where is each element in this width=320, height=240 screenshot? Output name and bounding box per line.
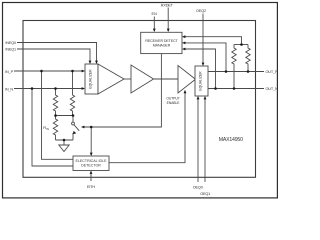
- switch blade: [74, 125, 79, 131]
- wire IN_P: [14, 70, 84, 72]
- arrowhead INEQ0: [95, 61, 98, 64]
- amplifier A3 output driver: [178, 66, 196, 94]
- junction IN_P branch 2: [71, 70, 74, 73]
- arrowhead EN into rdm: [153, 29, 156, 32]
- svg-text:MAX14950: MAX14950: [219, 137, 243, 143]
- arrowhead INEQ1: [89, 61, 92, 64]
- switch wire top: [72, 116, 74, 123]
- resistor RIN: [53, 116, 57, 141]
- equalizer block output: [195, 66, 208, 96]
- amplifier A2: [131, 65, 154, 93]
- arrowhead IN_N into equalizer: [82, 87, 85, 90]
- arrowhead enable into driver: [184, 90, 187, 93]
- junction OUT_N resistor: [233, 87, 236, 90]
- wire branch to idle detector top: [90, 127, 92, 155]
- wire t1 tip to t2: [124, 78, 131, 80]
- junction IN_N branch 2: [54, 87, 57, 90]
- wire OEQ0: [197, 97, 199, 182]
- wire rdm input from OUT_P: [184, 43, 226, 72]
- arrowhead IN_P into equalizer: [82, 70, 85, 73]
- wire OEQ1: [204, 97, 206, 182]
- wire output termination rail: [234, 44, 248, 46]
- svg-text:OUT_P: OUT_P: [266, 70, 279, 74]
- switch contact circle: [72, 122, 75, 125]
- junction switch control branch: [90, 126, 93, 129]
- wire rdm input from OUT_N: [184, 49, 216, 89]
- svg-text:OUT_N: OUT_N: [266, 87, 279, 91]
- arrowhead RXDET into rdm: [167, 29, 170, 32]
- junction termination rail right: [72, 114, 75, 117]
- svg-text:IN_N: IN_N: [5, 88, 13, 92]
- svg-text:EITH: EITH: [87, 185, 95, 189]
- wire INEQ0: [17, 43, 97, 64]
- switch throw contact: [73, 131, 77, 134]
- arrowhead rdm input 1: [182, 35, 185, 38]
- wire ground rail: [56, 139, 74, 141]
- svg-text:OEQ2: OEQ2: [196, 9, 206, 13]
- arrowhead into idle detector top: [90, 153, 93, 156]
- resistor input R from IN_N: [53, 89, 57, 116]
- svg-text:RECEIVER DETECT: RECEIVER DETECT: [145, 39, 178, 43]
- arrowhead OEQ1 into block: [204, 96, 207, 99]
- wire idle detector output to output enable: [109, 92, 185, 163]
- junction IN_P branch 1: [40, 70, 43, 73]
- svg-text:EQUALIZER: EQUALIZER: [89, 69, 93, 89]
- resistor output to OUT_P: [246, 45, 250, 72]
- wire receiver detect to switch: [83, 54, 161, 128]
- svg-text:OEQ0: OEQ0: [193, 185, 203, 189]
- svg-text:RXDET: RXDET: [161, 4, 174, 8]
- svg-text:EN: EN: [152, 12, 158, 16]
- junction OUT_N sense: [214, 87, 217, 90]
- junction ground tap: [63, 139, 66, 142]
- svg-text:MANAGER: MANAGER: [153, 44, 171, 48]
- svg-text:OEQ1: OEQ1: [200, 192, 210, 196]
- amplifier A1: [98, 64, 124, 94]
- wire OUT_N: [208, 88, 264, 90]
- figure frame: [3, 3, 278, 198]
- ground: [63, 140, 65, 145]
- pin OEQ2 wire: [202, 14, 204, 66]
- svg-text:RIN: RIN: [43, 125, 49, 131]
- svg-text:DETECTOR: DETECTOR: [81, 164, 101, 168]
- svg-text:ENABLE: ENABLE: [167, 101, 181, 105]
- arrowhead EITH into idle detector bottom: [90, 171, 93, 174]
- junction OUT_P resistor: [247, 70, 250, 73]
- pin RXDET wire: [167, 8, 169, 32]
- wire termination rail: [56, 115, 74, 117]
- wire IN_N: [14, 88, 84, 90]
- equalizer block input: [85, 64, 98, 94]
- electrical idle detector U2: [73, 156, 109, 171]
- svg-text:INEQ1: INEQ1: [5, 48, 16, 52]
- junction IN_N branch 1: [31, 87, 34, 90]
- wire rdm input from termination center: [184, 37, 242, 45]
- junction OUT_P sense: [225, 70, 228, 73]
- junction termination rail left: [54, 114, 57, 117]
- wire t2 tip to t3: [153, 78, 178, 80]
- svg-text:ELECTRICAL IDLE: ELECTRICAL IDLE: [75, 159, 107, 163]
- junction output rail center: [240, 43, 243, 46]
- pin EN wire: [153, 17, 155, 32]
- arrowhead rdm input 2: [182, 42, 185, 45]
- arrowhead switch control: [81, 126, 84, 129]
- wire OUT_P: [208, 71, 264, 73]
- receiver detect manager U1: [141, 32, 182, 53]
- svg-text:INEQ0: INEQ0: [5, 41, 16, 45]
- arrowhead OEQ2 into equalizer: [202, 63, 205, 66]
- chip outline box: [23, 21, 256, 178]
- svg-text:OUTPUT: OUTPUT: [166, 97, 179, 101]
- wire EITH pin: [90, 172, 92, 182]
- wire INEQ1: [17, 49, 90, 63]
- switch wire bottom: [72, 133, 74, 140]
- arrowhead rdm input 3: [182, 48, 185, 51]
- svg-text:IN_P: IN_P: [5, 70, 13, 74]
- wire IN_N sense to idle detector: [32, 89, 73, 167]
- resistor input R from IN_P: [70, 71, 74, 116]
- wire IN_P sense to idle detector: [42, 71, 74, 159]
- resistor output to OUT_N: [232, 45, 236, 89]
- arrowhead OEQ0 into block: [197, 96, 200, 99]
- svg-text:EQUALIZER: EQUALIZER: [199, 71, 203, 91]
